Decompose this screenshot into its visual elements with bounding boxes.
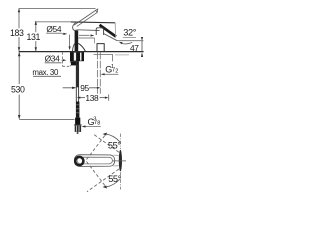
upper rotated handle dashed main edge	[87, 133, 108, 160]
D54 leader vertical with down arrow	[69, 35, 71, 49]
dimension 47 vertical	[141, 41, 143, 52]
dimension 131 vertical line	[35, 22, 37, 32]
dimension 183 vertical line	[18, 9, 20, 28]
dimension 138 horizontal	[77, 97, 81, 99]
svg-text:138: 138	[85, 93, 99, 103]
bell curve left	[73, 44, 75, 52]
raised lever line 2	[77, 12, 97, 26]
capsule to pivot connector top	[114, 154, 119, 156]
lower arc arrow	[106, 179, 121, 187]
rear connection box	[97, 44, 104, 52]
raised lever line 1	[74, 10, 95, 25]
lower thread block	[75, 125, 81, 132]
vertical dash-dot centerline above ellipse	[120, 134, 122, 150]
32deg arc arrow	[121, 42, 132, 44]
svg-text:8: 8	[97, 121, 100, 127]
upper arc arrow	[106, 134, 121, 142]
step line right of faucet	[94, 54, 113, 61]
body rear chamfer to tail tip	[103, 33, 117, 41]
svg-text:55°: 55°	[108, 174, 121, 184]
svg-text:183: 183	[10, 28, 24, 38]
body top edge	[78, 37, 94, 39]
lower rotated handle dashed edge A	[87, 169, 119, 192]
body front dark band	[75, 31, 79, 52]
dashed hole box left edge	[61, 52, 63, 66]
dashed hole box bottom	[62, 65, 70, 67]
svg-text:2: 2	[115, 68, 118, 74]
G1/2 leader arrow	[101, 73, 105, 75]
D54 leader arrow right	[62, 33, 65, 35]
thread tail	[77, 132, 79, 134]
lever tail thick band	[100, 25, 117, 37]
raised lever tip	[96, 9, 98, 12]
svg-text:Ø54: Ø54	[46, 24, 61, 34]
rod nipple	[75, 118, 80, 125]
dimension 530 vertical line	[18, 52, 20, 84]
mounting nut dark	[70, 52, 84, 61]
dimension 95 horizontal	[63, 87, 73, 89]
nut lower part	[71, 61, 78, 65]
extension line top (183 level)	[19, 8, 96, 10]
lever underside front	[79, 29, 100, 32]
pivot ellipse	[119, 150, 122, 172]
upper rotated handle dashed edge A	[93, 134, 119, 153]
body top ledge line with arrow	[79, 34, 90, 36]
svg-text:131: 131	[27, 32, 41, 42]
bell curve	[78, 43, 85, 51]
nipple base line	[74, 124, 82, 126]
svg-text:max. 30: max. 30	[32, 68, 59, 77]
530 reference line bottom	[19, 119, 74, 121]
lower rotated handle dashed main edge	[87, 162, 108, 189]
lever rear face	[114, 23, 116, 37]
faint ledge line right	[115, 54, 129, 56]
vertical dash-dot centerline below ellipse	[120, 172, 122, 189]
G3/8 leader arrow	[82, 125, 86, 127]
supply tube	[75, 61, 77, 102]
pivot tick	[112, 160, 126, 162]
capsule to pivot connector bottom	[114, 165, 119, 167]
svg-text:47: 47	[130, 43, 139, 53]
lever top surface	[71, 21, 115, 24]
extension line 131 level merging into lever top	[35, 21, 71, 23]
lever front beak	[73, 22, 79, 31]
handle left end dark ring	[75, 157, 83, 165]
dashed hole box right edge	[69, 61, 71, 67]
32deg underline	[123, 36, 136, 38]
svg-text:95: 95	[80, 83, 89, 93]
knob on body top	[96, 28, 103, 35]
deck line	[19, 51, 144, 53]
D34 arrow	[62, 59, 64, 61]
svg-text:32°: 32°	[123, 28, 137, 38]
capsule inner line	[77, 157, 112, 164]
extension line 47 top level	[117, 40, 143, 42]
body rear edge	[94, 38, 96, 43]
threaded rod dark	[76, 102, 80, 118]
svg-text:Ø34: Ø34	[45, 53, 60, 63]
G1/2 pipe dashed lines	[96, 52, 98, 94]
svg-text:530: 530	[11, 85, 25, 95]
top view handle capsule outer	[74, 155, 114, 167]
svg-text:55°: 55°	[108, 141, 121, 151]
